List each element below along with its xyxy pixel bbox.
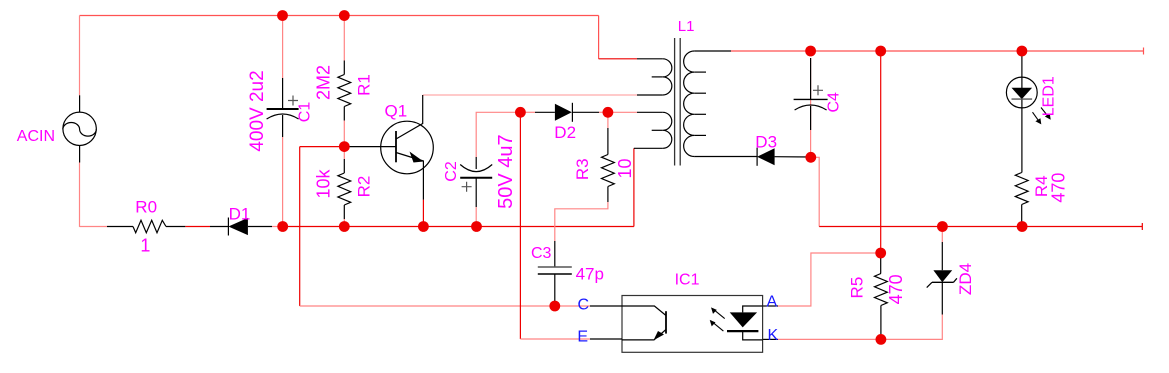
svg-text:C2: C2 — [443, 161, 460, 182]
resistor R2 top lead — [343, 159, 345, 173]
node junction 5 — [1017, 46, 1028, 57]
diode D1 right lead — [248, 226, 272, 228]
svg-text:C3: C3 — [531, 245, 552, 262]
resistor R2 bottom lead — [343, 205, 345, 219]
capacitor C1 bottom lead — [282, 115, 284, 137]
resistor R5 bottom lead — [880, 306, 882, 340]
svg-text:47p: 47p — [576, 264, 604, 283]
svg-text:D3: D3 — [755, 133, 777, 152]
diode D3 right lead — [775, 156, 811, 158]
svg-text:R0: R0 — [135, 198, 157, 217]
wire bottom rail up to transformer primary — [633, 148, 635, 226]
wire base corner down — [299, 147, 301, 306]
led LED1 circle — [1006, 77, 1037, 108]
wire D2 right — [599, 111, 608, 113]
source ACIN circle — [63, 112, 96, 145]
svg-text:400V 2u2: 400V 2u2 — [247, 70, 268, 151]
wire top rail down to transformer v — [598, 16, 600, 59]
node junction 18 — [876, 334, 887, 345]
node junction 1 — [277, 10, 288, 21]
zener ZD4 right wing — [954, 278, 957, 282]
capacitor C2 curved plate — [460, 165, 492, 172]
source ACIN top lead — [79, 95, 81, 112]
svg-text:D1: D1 — [229, 205, 251, 224]
inductor L1 secondary loops — [684, 51, 695, 157]
capacitor C1 top plate — [267, 108, 299, 110]
capacitor C3 top plate — [538, 266, 572, 268]
svg-text:1: 1 — [140, 236, 150, 256]
resistor R4 body — [1015, 173, 1028, 205]
capacitor C4 top plate — [794, 98, 828, 100]
wire C1 bottom segment — [282, 137, 284, 227]
capacitor C4 curved plate — [795, 105, 827, 110]
capacitor C1 curved plate — [267, 114, 299, 119]
svg-text:IC1: IC1 — [675, 272, 700, 289]
optocoupler IC1 box — [622, 296, 763, 353]
diode D2 bar — [571, 103, 573, 122]
capacitor C2 top lead — [475, 157, 477, 169]
core L1 line2 — [679, 38, 681, 166]
wire emitter to rail — [422, 200, 424, 227]
transistor Q1 base lead — [344, 146, 396, 148]
svg-text:D2: D2 — [554, 123, 576, 142]
inductor L1 primary1 stub — [652, 76, 663, 78]
source ACIN bottom lead — [79, 146, 81, 163]
svg-text:C: C — [578, 296, 590, 313]
diode D1 triangle — [228, 218, 248, 235]
wire bottom rail — [283, 226, 634, 228]
led LED1 bottom lead — [1021, 108, 1023, 173]
diode D3 triangle — [757, 148, 775, 165]
inductor L1 primary1 loops — [663, 59, 672, 95]
wire C4 column — [810, 58, 812, 157]
node junction 16 — [875, 248, 886, 259]
wire R0-D1 — [185, 226, 210, 228]
wire top rail down to transformer h — [599, 58, 637, 60]
wire LED column — [1021, 51, 1023, 78]
svg-text:C1: C1 — [297, 102, 314, 123]
wire D2 left — [520, 111, 535, 113]
wire K row — [778, 315, 942, 340]
inductor L1 primary2 bottom lead — [634, 147, 663, 149]
tick right top rail end — [1143, 48, 1145, 55]
wire R2 top segment — [343, 147, 345, 159]
wire R0 left — [80, 226, 108, 228]
wire Q1 collector row — [423, 94, 637, 96]
svg-text:C4: C4 — [826, 92, 843, 113]
capacitor C3 bottom lead — [554, 274, 556, 306]
optocoupler IC1 transistor bar — [665, 311, 667, 333]
svg-text:K: K — [768, 327, 779, 344]
inductor L1 primary1 bottom lead — [637, 94, 663, 96]
resistor R0 body — [133, 220, 166, 232]
source ACIN sine — [63, 122, 96, 136]
led LED1 triangle — [1012, 88, 1033, 99]
svg-text:10k: 10k — [313, 168, 333, 198]
diode D3 bar — [756, 148, 758, 166]
svg-text:R5: R5 — [847, 277, 866, 299]
optocoupler IC1 C lead — [590, 305, 622, 307]
transistor Q1 emitter — [396, 153, 423, 200]
tick right bottom rail end — [1141, 223, 1143, 230]
wire R3 bottom jog — [555, 202, 608, 241]
wire secondary top lead — [731, 50, 811, 52]
svg-text:L1: L1 — [678, 18, 695, 35]
wire ZD4 top — [941, 227, 943, 243]
node junction 7 — [603, 107, 614, 118]
resistor R1 body — [338, 75, 351, 107]
capacitor C1 top lead — [282, 78, 284, 109]
resistor R1 top lead — [343, 61, 345, 75]
capacitor C4 top lead — [810, 58, 812, 99]
transistor Q1 circle — [381, 121, 434, 174]
inductor L1 primary2 loops — [663, 112, 672, 148]
optocoupler IC1 emitter path — [622, 330, 666, 340]
optocoupler IC1 light arrow 2 — [711, 321, 723, 331]
svg-text:R1: R1 — [355, 74, 374, 96]
svg-text:E: E — [577, 329, 588, 346]
svg-text:Q1: Q1 — [385, 102, 408, 121]
optocoupler IC1 collector path — [622, 306, 666, 316]
optocoupler IC1 led triangle — [730, 312, 757, 327]
inductor L1 secondary stub 3 — [694, 113, 706, 115]
optocoupler IC1 E lead — [590, 338, 622, 340]
wire base row — [300, 146, 345, 148]
optocoupler IC1 light arrow 1 — [713, 309, 725, 319]
resistor R5 body — [875, 274, 888, 306]
svg-text:470: 470 — [886, 274, 906, 304]
diode D2 left lead — [535, 111, 555, 113]
svg-text:LED1: LED1 — [1040, 76, 1057, 116]
wire ACIN to bottom rail — [79, 163, 81, 227]
wire Q1 collector corner — [422, 95, 424, 96]
led LED1 bar — [1012, 98, 1033, 100]
resistor R3 body — [602, 155, 615, 187]
node junction 17 — [549, 301, 560, 312]
capacitor C2 bottom plate — [460, 177, 492, 179]
diode D2 triangle — [555, 104, 572, 121]
resistor R2 body — [338, 173, 351, 205]
wire C2 column bottom — [475, 207, 477, 227]
wire E row — [520, 338, 590, 340]
diode D2 right lead — [572, 111, 599, 113]
node junction 11 — [418, 221, 429, 232]
node junction 4 — [875, 46, 886, 57]
wire E column — [519, 112, 521, 339]
led LED1 lead through — [1021, 78, 1023, 108]
wire D3 junction jog down — [811, 157, 819, 226]
zener ZD4 bottom lead — [941, 282, 943, 314]
capacitor C2 bottom lead — [475, 178, 477, 207]
svg-text:470: 470 — [1048, 173, 1068, 203]
zener ZD4 left wing — [927, 282, 932, 287]
wire C1 top segment — [282, 16, 284, 79]
svg-text:50V 4u7: 50V 4u7 — [495, 134, 517, 209]
optocoupler IC1 K lead — [763, 338, 778, 340]
optocoupler IC1 A lead — [763, 305, 778, 307]
resistor R3 top lead — [607, 128, 609, 155]
core L1 line1 — [674, 38, 676, 166]
wire primary2 top lead wire — [608, 111, 637, 113]
inductor L1 primary2 top lead — [637, 111, 663, 113]
led LED1 arrow 2 — [1041, 108, 1049, 119]
node junction 14 — [937, 221, 948, 232]
resistor R3 bottom lead — [607, 187, 609, 203]
zener ZD4 top lead — [941, 242, 943, 270]
wire A row — [778, 253, 881, 306]
node junction 15 — [1017, 221, 1028, 232]
wire R3 top — [607, 112, 609, 128]
diode D1 left lead — [210, 226, 228, 228]
svg-text:2M2: 2M2 — [314, 65, 334, 100]
node junction 2 — [339, 10, 350, 21]
node junction 12 — [471, 221, 482, 232]
svg-text:R3: R3 — [573, 158, 592, 180]
node junction 9 — [277, 221, 288, 232]
capacitor C1 plus — [288, 96, 298, 106]
resistor R5 top lead — [880, 253, 882, 274]
wire R2 bottom segment — [343, 219, 345, 227]
wire C row — [300, 305, 590, 307]
inductor L1 secondary bottom lead — [694, 156, 757, 158]
wire left vertical from top rail to ACIN — [79, 16, 81, 96]
inductor L1 secondary stub 1 — [694, 71, 706, 73]
inductor L1 primary2 stub — [652, 129, 663, 131]
optocoupler IC1 K inner — [743, 331, 763, 340]
capacitor C4 bottom lead — [810, 106, 812, 130]
led LED1 arrow 1 — [1033, 112, 1041, 123]
wire R1 top segment — [343, 16, 345, 61]
capacitor C4 plus — [813, 85, 823, 95]
resistor R0 left lead — [107, 226, 133, 228]
wire top rail — [80, 15, 599, 17]
node junction 10 — [339, 221, 350, 232]
node junction 3 — [805, 46, 816, 57]
wire right bottom rail — [819, 226, 1142, 228]
transistor Q1 base bar — [395, 131, 397, 162]
wire C2 column top — [476, 112, 520, 157]
optocoupler IC1 led bar — [727, 330, 758, 332]
resistor R4 bottom lead — [1021, 205, 1023, 227]
node junction 13 — [339, 141, 350, 152]
wire R5 column from top rail — [880, 51, 882, 253]
transistor Q1 emitter arrow — [410, 152, 424, 163]
resistor R1 bottom lead — [343, 107, 345, 121]
svg-text:ACIN: ACIN — [17, 128, 55, 145]
inductor L1 secondary stub 2 — [694, 92, 706, 94]
wire R1 bottom segment — [343, 121, 345, 147]
inductor L1 primary1 top lead — [637, 58, 663, 60]
node junction 8 — [805, 152, 816, 163]
inductor L1 secondary stub 4 — [694, 134, 706, 136]
capacitor C2 plus — [462, 182, 472, 192]
resistor R0 right lead — [166, 226, 185, 228]
zener ZD4 triangle — [933, 270, 952, 282]
node junction 6 — [515, 107, 526, 118]
diode D1 bar — [227, 218, 229, 236]
wire right top rail — [811, 50, 1144, 52]
optocoupler IC1 A inner — [743, 306, 763, 312]
svg-text:10: 10 — [615, 158, 635, 178]
wire D1 to junction — [272, 226, 283, 228]
svg-text:R2: R2 — [355, 176, 374, 198]
capacitor C3 bottom plate — [538, 273, 572, 275]
optocoupler IC1 emitter arrow — [654, 331, 665, 340]
capacitor C3 top lead — [554, 241, 556, 267]
transistor Q1 collector — [396, 95, 423, 139]
inductor L1 secondary top lead — [694, 50, 731, 52]
svg-text:ZD4: ZD4 — [956, 263, 975, 295]
zener ZD4 bar — [932, 281, 954, 283]
svg-text:A: A — [767, 293, 778, 310]
